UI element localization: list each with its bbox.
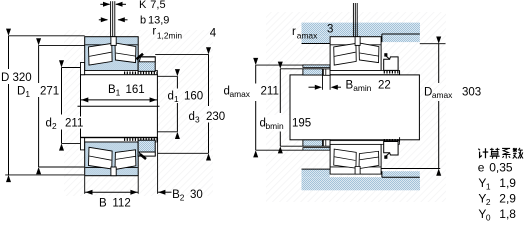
dim d3	[155, 53, 208, 55]
lock nut top	[138, 57, 155, 72]
svg-text:r: r	[292, 26, 296, 38]
sleeve lip left-bottom	[81, 138, 85, 150]
abutment ring bottom	[303, 140, 323, 146]
dim D_amax	[420, 43, 446, 45]
housing band top	[302, 23, 421, 37]
dim d1	[157, 75, 177, 77]
dim B ext lines	[84, 176, 86, 194]
bearing section top	[85, 37, 158, 75]
sleeve end right top	[399, 70, 401, 75]
dim B	[85, 191, 139, 193]
svg-text:4: 4	[210, 28, 217, 40]
sleeve lip left-top	[81, 63, 85, 75]
svg-text:amax: amax	[297, 31, 318, 41]
svg-text:13,9: 13,9	[148, 14, 169, 26]
sleeve thread top	[124, 72, 157, 75]
bearing section bottom	[85, 138, 158, 176]
svg-text:e: e	[478, 160, 485, 174]
sleeve thread right bottom	[384, 139, 400, 142]
abutment ring top	[303, 69, 323, 75]
dim B1	[81, 99, 158, 101]
lock nut right top	[384, 57, 398, 71]
housing shoulder top-right	[382, 36, 420, 42]
sleeve lip right-top	[323, 69, 330, 75]
svg-text:d1160: d1160	[168, 91, 204, 105]
svg-text:d2211: d2211	[46, 118, 84, 132]
dim D	[9, 35, 85, 37]
bearing section right bottom	[330, 141, 399, 174]
abutment washer strip top	[303, 65, 330, 68]
sleeve thread bottom	[124, 138, 157, 141]
dim B_amin	[309, 86, 316, 88]
svg-text:7,5: 7,5	[150, 0, 165, 11]
svg-text:d3230: d3230	[189, 111, 226, 125]
svg-text:b: b	[140, 14, 146, 26]
dim B2	[158, 191, 172, 193]
svg-text:0,35: 0,35	[489, 160, 513, 174]
sleeve thread right top	[384, 71, 400, 74]
svg-text:K: K	[139, 0, 147, 11]
svg-text:3: 3	[327, 24, 333, 36]
lock nut bottom	[138, 140, 155, 156]
svg-text:112: 112	[112, 198, 130, 210]
dim d2	[62, 67, 81, 69]
washer tab right top	[384, 53, 387, 56]
lock nut right bottom	[384, 142, 398, 156]
svg-text:1,2min: 1,2min	[157, 31, 182, 41]
dim B_amin ext	[322, 75, 324, 89]
adapter sleeve body	[81, 75, 158, 138]
faint hatch right drawing	[266, 12, 446, 202]
dim b	[99, 19, 108, 21]
groove lines right	[352, 3, 354, 37]
svg-text:D 320: D 320	[1, 72, 32, 84]
sleeve lip right-bottom	[323, 140, 330, 146]
housing band bottom	[302, 177, 421, 190]
washer tab right bottom	[384, 155, 387, 158]
abutment washer strip bottom	[303, 148, 330, 151]
svg-text:B: B	[99, 198, 107, 210]
lock washer tab bottom	[140, 154, 146, 159]
shaft surface line	[78, 105, 160, 107]
sleeve end right bottom	[399, 137, 401, 142]
housing shoulder bottom-right	[382, 171, 420, 177]
dim d_amax	[256, 64, 303, 66]
housing shoulder bottom-left	[302, 169, 330, 177]
lock washer tab top	[136, 54, 143, 59]
dim B2 ext	[157, 137, 159, 193]
label r_amax	[288, 25, 334, 39]
svg-text:B1161: B1161	[108, 84, 145, 98]
dim D1	[39, 44, 85, 46]
shaft	[290, 75, 419, 140]
table title 计算系数	[478, 148, 523, 159]
dim d_bmin	[280, 68, 302, 70]
faint hatch left drawing	[64, 30, 213, 196]
bearing section right top	[330, 37, 399, 75]
svg-text:r: r	[152, 26, 156, 38]
dim K	[100, 3, 109, 5]
groove lines	[110, 1, 112, 37]
housing shoulder top-left	[302, 36, 330, 43]
